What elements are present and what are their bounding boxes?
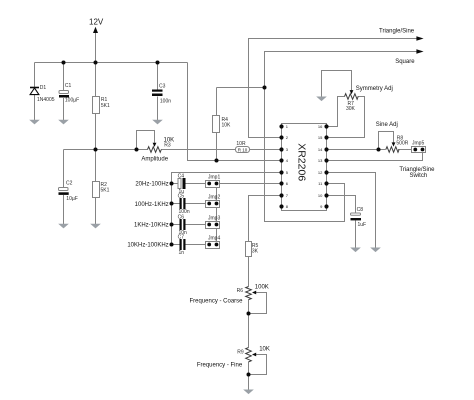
svg-text:D1: D1 [40, 85, 47, 91]
svg-text:30K: 30K [346, 106, 356, 112]
svg-text:1N4005: 1N4005 [37, 97, 55, 103]
svg-text:R6: R6 [237, 288, 244, 294]
svg-text:1uF: 1uF [358, 222, 367, 228]
svg-text:100n: 100n [160, 99, 171, 105]
svg-text:10K: 10K [222, 123, 232, 129]
svg-text:C7: C7 [178, 234, 185, 240]
svg-text:Square: Square [395, 59, 415, 65]
svg-text:10K: 10K [259, 347, 270, 353]
svg-text:20Hz-100Hz: 20Hz-100Hz [135, 182, 168, 188]
svg-text:1KHz-10KHz: 1KHz-10KHz [134, 222, 169, 228]
svg-text:Jmp5: Jmp5 [412, 141, 424, 147]
svg-text:16: 16 [318, 124, 323, 129]
svg-text:C5: C5 [178, 193, 185, 199]
svg-text:10: 10 [318, 193, 323, 198]
svg-text:100Hz-1KHz: 100Hz-1KHz [135, 202, 169, 208]
svg-text:Symmetry Adj: Symmetry Adj [356, 86, 393, 92]
svg-text:10KHz-100KHz: 10KHz-100KHz [127, 242, 168, 248]
svg-text:Switch: Switch [410, 173, 428, 179]
svg-text:R3: R3 [164, 143, 171, 149]
svg-text:Frequency - Fine: Frequency - Fine [197, 362, 243, 368]
svg-text:Jmp3: Jmp3 [208, 216, 220, 222]
svg-text:C8: C8 [357, 207, 364, 213]
svg-text:12: 12 [318, 170, 323, 175]
svg-text:500R: 500R [396, 140, 408, 146]
svg-text:12V: 12V [89, 18, 104, 27]
svg-text:R 10: R 10 [238, 147, 248, 152]
svg-text:C6: C6 [178, 214, 185, 220]
svg-text:3K: 3K [252, 248, 259, 254]
svg-text:Jmp4: Jmp4 [208, 236, 220, 242]
svg-text:XR2206: XR2206 [295, 143, 307, 181]
svg-text:Jmp1: Jmp1 [208, 175, 220, 181]
svg-text:Amplitude: Amplitude [141, 157, 168, 163]
svg-text:Frequency - Coarse: Frequency - Coarse [189, 299, 243, 305]
svg-text:10R: 10R [236, 141, 246, 147]
svg-text:15: 15 [318, 135, 323, 140]
svg-text:Triangle/Sine: Triangle/Sine [399, 167, 435, 173]
svg-text:100µF: 100µF [65, 98, 79, 104]
svg-text:5K1: 5K1 [101, 187, 110, 193]
svg-text:Triangle/Sine: Triangle/Sine [379, 29, 415, 35]
svg-text:C4: C4 [178, 173, 185, 179]
svg-text:C1: C1 [65, 83, 72, 89]
svg-text:100K: 100K [255, 285, 269, 291]
svg-text:5K1: 5K1 [101, 103, 110, 109]
svg-text:C3: C3 [159, 83, 166, 89]
svg-text:14: 14 [318, 147, 323, 152]
svg-text:1n: 1n [179, 250, 185, 256]
svg-text:10µF: 10µF [66, 196, 78, 202]
svg-text:C2: C2 [66, 181, 73, 187]
svg-text:Jmp2: Jmp2 [208, 195, 220, 201]
svg-text:Sine Adj: Sine Adj [376, 122, 398, 128]
svg-text:R9: R9 [237, 350, 244, 356]
svg-text:13: 13 [318, 158, 323, 163]
